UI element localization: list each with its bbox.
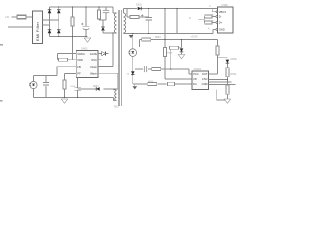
svg-text:4.: 4. — [208, 27, 210, 30]
svg-text:EMI Filter: EMI Filter — [36, 21, 40, 41]
svg-text:GATE: GATE — [90, 52, 97, 56]
svg-text:D+: D+ — [219, 21, 223, 25]
svg-text:FG: FG — [193, 82, 197, 86]
svg-text:VBUS: VBUS — [219, 10, 227, 14]
svg-text:D-: D- — [219, 15, 222, 19]
svg-text:D604: D604 — [93, 86, 99, 88]
svg-text:T601: T601 — [114, 107, 120, 109]
svg-text:USB1: USB1 — [222, 4, 229, 7]
svg-text:VD: VD — [193, 77, 197, 81]
svg-text:C605: C605 — [70, 86, 76, 88]
svg-text:OUT: OUT — [202, 72, 208, 76]
svg-text:L/N: L/N — [5, 16, 9, 19]
svg-text:OSC: OSC — [91, 58, 97, 62]
svg-text:GND: GND — [202, 82, 208, 86]
svg-text:GND: GND — [219, 28, 225, 32]
svg-text:Z6: Z6 — [127, 74, 130, 76]
svg-text:VCC: VCC — [193, 72, 199, 76]
svg-text:VDDA: VDDA — [77, 52, 85, 56]
svg-text:PF: PF — [77, 72, 81, 76]
svg-text:CN601: CN601 — [194, 68, 202, 71]
svg-text:D601: D601 — [136, 4, 142, 7]
svg-text:+5.0V: +5.0V — [191, 35, 198, 39]
svg-text:1.: 1. — [209, 5, 211, 8]
svg-text:D602: D602 — [231, 57, 238, 61]
svg-text:FB: FB — [77, 65, 81, 69]
svg-text:D: D — [189, 17, 191, 20]
svg-text:VDD: VDD — [77, 58, 83, 62]
svg-text:Wave: Wave — [90, 72, 97, 76]
svg-text:CSC: CSC — [202, 77, 208, 81]
svg-text:Drain: Drain — [90, 65, 97, 69]
svg-text:U601: U601 — [81, 47, 88, 51]
svg-text:R607: R607 — [167, 53, 173, 55]
svg-text:R611: R611 — [231, 72, 238, 76]
svg-text:R615: R615 — [148, 81, 154, 83]
svg-text:R604: R604 — [155, 37, 161, 39]
